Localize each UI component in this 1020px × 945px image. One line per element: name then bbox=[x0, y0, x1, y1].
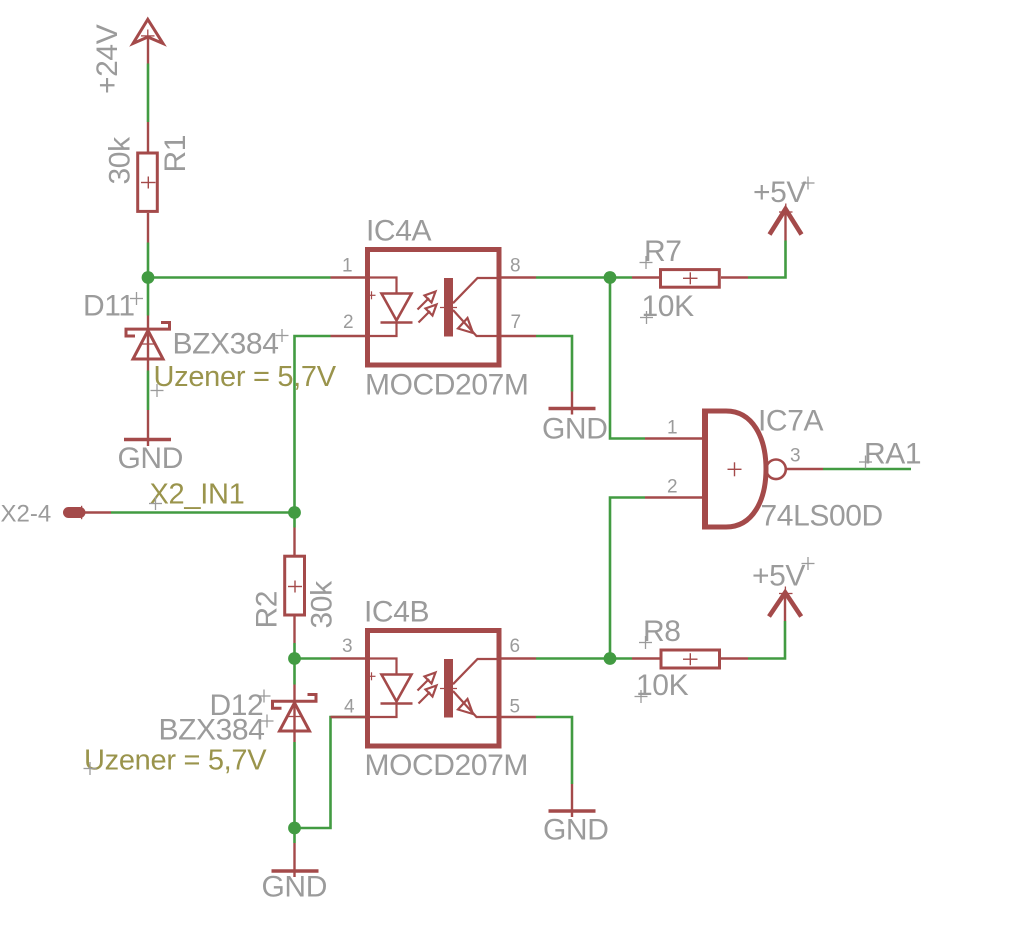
wire R2 to junction D bbox=[293, 643, 296, 659]
svg-text:BZX384: BZX384 bbox=[159, 714, 265, 747]
svg-text:3: 3 bbox=[790, 446, 801, 467]
cross BZX384 D12 origin bbox=[261, 715, 274, 728]
cross X2_IN1 origin bbox=[149, 497, 162, 510]
IC7A pin 1 stub bbox=[645, 437, 702, 439]
svg-text:GND: GND bbox=[542, 413, 607, 446]
wire +24V to R1 bbox=[147, 64, 150, 123]
svg-text:GND: GND bbox=[262, 871, 327, 904]
svg-text:6: 6 bbox=[510, 636, 521, 657]
optocoupler IC4B bbox=[331, 631, 537, 747]
IC4B pin 5 stub bbox=[502, 716, 537, 718]
cross +5V R7 origin bbox=[802, 177, 815, 190]
node D junction bbox=[288, 652, 301, 665]
svg-text:2: 2 bbox=[343, 312, 354, 333]
cross RA1 origin bbox=[859, 456, 872, 469]
svg-text:1: 1 bbox=[342, 256, 353, 277]
wire R1 to junction A bbox=[147, 243, 150, 279]
svg-text:MOCD207M: MOCD207M bbox=[365, 369, 529, 402]
wire IC4A pin2 to junction C bbox=[295, 336, 331, 513]
IC4B body box bbox=[368, 631, 500, 747]
cross BZX384 origin bbox=[276, 329, 289, 342]
ground GND (IC4B pin5) bbox=[549, 784, 596, 817]
svg-text:IC4A: IC4A bbox=[366, 215, 431, 248]
zener diode D11 bbox=[126, 316, 170, 371]
cross 10K R8 origin bbox=[635, 690, 648, 703]
IC4B pin 3 stub bbox=[331, 657, 367, 659]
wire D11 to GND stub bbox=[147, 371, 150, 411]
svg-text:IC4B: IC4B bbox=[364, 596, 429, 629]
IC4A phototransistor bbox=[440, 278, 502, 337]
wire X2-4 to junction C bbox=[111, 511, 295, 514]
svg-text:5: 5 bbox=[510, 697, 521, 718]
svg-text:+5V: +5V bbox=[753, 176, 806, 209]
ground GND (IC4A pin7) bbox=[549, 392, 596, 415]
cross 10K R7 origin bbox=[640, 311, 653, 324]
svg-text:30k: 30k bbox=[306, 580, 339, 629]
wire junction D to IC4B pin3 bbox=[295, 657, 331, 660]
wire IC7A output to RA1 bbox=[823, 468, 911, 471]
ground GND (D11) bbox=[124, 410, 171, 446]
cross Uzener origin bbox=[151, 384, 164, 397]
wire junction D to D12 bbox=[293, 659, 296, 685]
optocoupler IC4A bbox=[331, 250, 537, 366]
svg-text:X2-4: X2-4 bbox=[1, 501, 52, 528]
svg-text:GND: GND bbox=[118, 442, 183, 475]
wire junction C to R2 bbox=[293, 513, 296, 528]
svg-text:Uzener = 5,7V: Uzener = 5,7V bbox=[154, 361, 337, 393]
wire junction A to IC4A pin1 bbox=[148, 276, 331, 279]
resistor R1 bbox=[138, 122, 158, 243]
svg-text:+24V: +24V bbox=[91, 24, 124, 94]
IC4A pin 1 stub bbox=[331, 276, 367, 278]
svg-text:RA1: RA1 bbox=[864, 438, 921, 471]
svg-text:D11: D11 bbox=[83, 290, 135, 323]
wire IC4B pin6 to junction F bbox=[536, 657, 610, 660]
IC4A pin 2 stub bbox=[331, 335, 367, 337]
IC7A origin cross bbox=[728, 468, 742, 470]
IC4B pin 6 stub bbox=[502, 657, 537, 659]
wire IC4A pin8 to junction B bbox=[536, 276, 610, 279]
supply +24V symbol bbox=[133, 19, 163, 63]
svg-text:4: 4 bbox=[344, 697, 355, 718]
supply +5V (R8) bbox=[769, 587, 801, 622]
wire IC4B pin5 to GND bbox=[536, 717, 572, 784]
IC4B LED bbox=[366, 659, 413, 718]
IC4B pin 4 stub bbox=[331, 716, 367, 718]
wire junction F to IC7A pin2 bbox=[610, 498, 645, 659]
IC4B phototransistor bbox=[440, 659, 502, 718]
wire junction B to IC7A pin1 bbox=[610, 278, 645, 439]
wire junction F to R8 bbox=[610, 657, 632, 660]
node E junction bbox=[288, 822, 301, 835]
svg-text:1: 1 bbox=[667, 418, 678, 439]
svg-text:MOCD207M: MOCD207M bbox=[365, 749, 529, 782]
node B junction bbox=[604, 271, 617, 284]
svg-text:R2: R2 bbox=[251, 591, 284, 629]
node A junction bbox=[142, 271, 155, 284]
zener diode D12 bbox=[273, 685, 317, 743]
IC4A light arrows bbox=[418, 292, 437, 323]
nand gate IC7A bbox=[645, 409, 823, 530]
wire R8 to +5V corner bbox=[748, 621, 785, 659]
resistor R7 bbox=[632, 270, 748, 288]
resistor R2 bbox=[285, 528, 305, 644]
svg-text:3: 3 bbox=[342, 636, 353, 657]
IC7A output bubble bbox=[766, 460, 786, 480]
IC7A pin 2 stub bbox=[645, 496, 702, 498]
cross D12 origin bbox=[258, 690, 271, 703]
IC7A pin 3 output stub bbox=[786, 468, 824, 470]
wire junction B to R7 bbox=[610, 276, 632, 279]
IC4B light arrows bbox=[418, 673, 437, 704]
IC4A body box bbox=[368, 250, 500, 366]
node C junction X2_IN1 bbox=[288, 506, 301, 519]
wire junction E to GND stub bbox=[293, 828, 296, 843]
svg-text:+5V: +5V bbox=[752, 560, 805, 593]
svg-text:X2_IN1: X2_IN1 bbox=[150, 479, 245, 511]
svg-text:7: 7 bbox=[511, 312, 522, 333]
cross D11 label origin bbox=[130, 292, 143, 305]
IC4A LED bbox=[366, 278, 413, 337]
svg-text:R1: R1 bbox=[159, 135, 192, 173]
svg-text:2: 2 bbox=[667, 477, 678, 498]
cross R8 origin bbox=[639, 636, 652, 649]
wire junction A to D11 bbox=[147, 278, 150, 316]
svg-text:74LS00D: 74LS00D bbox=[761, 500, 883, 533]
cross R7 origin bbox=[640, 256, 653, 269]
connector pin X2-4 bbox=[63, 506, 111, 519]
cross +5V R8 origin bbox=[802, 557, 815, 570]
IC4A pin 8 stub bbox=[502, 276, 537, 278]
wire R7 to +5V corner bbox=[748, 241, 786, 278]
resistor R8 bbox=[632, 650, 748, 668]
wire D12 to junction E bbox=[293, 742, 296, 828]
svg-text:BZX384: BZX384 bbox=[173, 328, 279, 361]
wire junction E to IC4B pin4 bbox=[295, 717, 366, 828]
svg-text:30k: 30k bbox=[104, 136, 137, 185]
ground GND (D12) bbox=[272, 843, 319, 877]
supply +5V (R7) bbox=[770, 204, 802, 241]
svg-text:IC7A: IC7A bbox=[758, 405, 823, 438]
wire IC4A pin7 to GND bbox=[536, 336, 572, 392]
node F junction bbox=[604, 652, 617, 665]
IC7A body bbox=[705, 411, 766, 527]
svg-text:GND: GND bbox=[543, 814, 608, 847]
svg-text:8: 8 bbox=[510, 256, 521, 277]
svg-text:Uzener = 5,7V: Uzener = 5,7V bbox=[84, 745, 267, 777]
IC4A pin 7 stub bbox=[502, 335, 537, 337]
cross Uzener D12 origin bbox=[84, 762, 97, 775]
